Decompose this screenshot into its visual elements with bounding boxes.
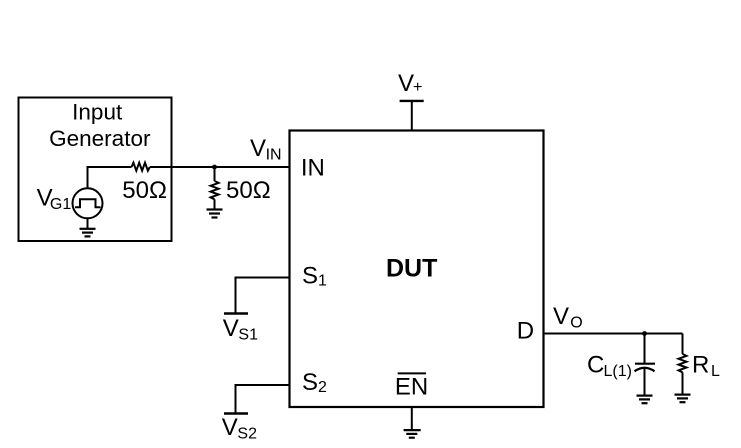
- svg-text:O: O: [570, 314, 582, 331]
- svg-text:50Ω: 50Ω: [226, 177, 271, 204]
- svg-text:D: D: [517, 318, 534, 345]
- svg-text:EN: EN: [395, 374, 428, 401]
- svg-text:Generator: Generator: [49, 126, 151, 151]
- svg-text:S1: S1: [238, 326, 258, 343]
- svg-text:IN: IN: [301, 155, 325, 182]
- svg-text:G1: G1: [50, 196, 71, 213]
- svg-text:V: V: [250, 135, 266, 162]
- svg-text:+: +: [413, 79, 422, 96]
- svg-text:S2: S2: [237, 426, 257, 443]
- svg-text:IN: IN: [266, 146, 282, 163]
- svg-text:V: V: [398, 70, 414, 97]
- svg-text:DUT: DUT: [386, 255, 437, 283]
- svg-text:R: R: [692, 352, 709, 379]
- svg-text:S: S: [302, 369, 318, 396]
- svg-text:2: 2: [318, 379, 327, 396]
- svg-text:50Ω: 50Ω: [122, 177, 167, 204]
- svg-text:L(1): L(1): [604, 363, 632, 380]
- svg-text:S: S: [302, 262, 318, 289]
- svg-text:L: L: [711, 363, 720, 380]
- svg-text:1: 1: [318, 273, 327, 290]
- svg-text:V: V: [222, 414, 238, 441]
- svg-text:V: V: [223, 315, 239, 342]
- svg-text:Input: Input: [72, 100, 123, 125]
- svg-text:V: V: [553, 303, 569, 330]
- svg-text:C: C: [587, 352, 604, 379]
